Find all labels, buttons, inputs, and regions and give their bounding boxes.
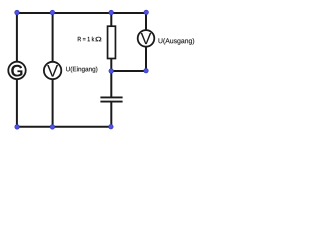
- node junction top-right: [144, 10, 149, 15]
- wire middle horizontal from resistor bottom node to output meter: [111, 70, 146, 72]
- node junction bottom second: [50, 125, 55, 129]
- wire right vertical output meter branch: [145, 13, 147, 71]
- generator G letter: [11, 65, 22, 77]
- wire third vertical upper resistor branch: [110, 13, 112, 97]
- wire third vertical lower capacitor to bottom: [110, 102, 112, 127]
- wire left vertical: [16, 13, 18, 127]
- node junction top third: [109, 10, 114, 15]
- capacitor C top plate: [100, 96, 122, 98]
- wire bottom horizontal: [16, 126, 112, 128]
- node junction top-left: [15, 10, 20, 15]
- generator G circle: [8, 62, 25, 79]
- wire second vertical input meter branch: [52, 13, 54, 127]
- voltmeter output circle: [138, 30, 155, 47]
- label U(Eingang): [66, 67, 97, 73]
- node junction middle-right: [144, 68, 149, 73]
- node junction bottom third: [109, 124, 114, 129]
- voltmeter input letter V: [47, 65, 58, 77]
- voltmeter input circle: [44, 62, 61, 79]
- label U(Ausgang): [159, 38, 195, 45]
- resistor value label R = 1 kOhm: [78, 37, 102, 41]
- node junction bottom-left: [15, 125, 20, 129]
- node junction top second: [50, 10, 55, 15]
- voltmeter output letter V: [141, 33, 152, 44]
- resistor R body: [108, 26, 116, 58]
- wire top horizontal: [16, 12, 147, 14]
- capacitor C bottom plate: [100, 101, 122, 103]
- node junction middle-left: [109, 69, 114, 74]
